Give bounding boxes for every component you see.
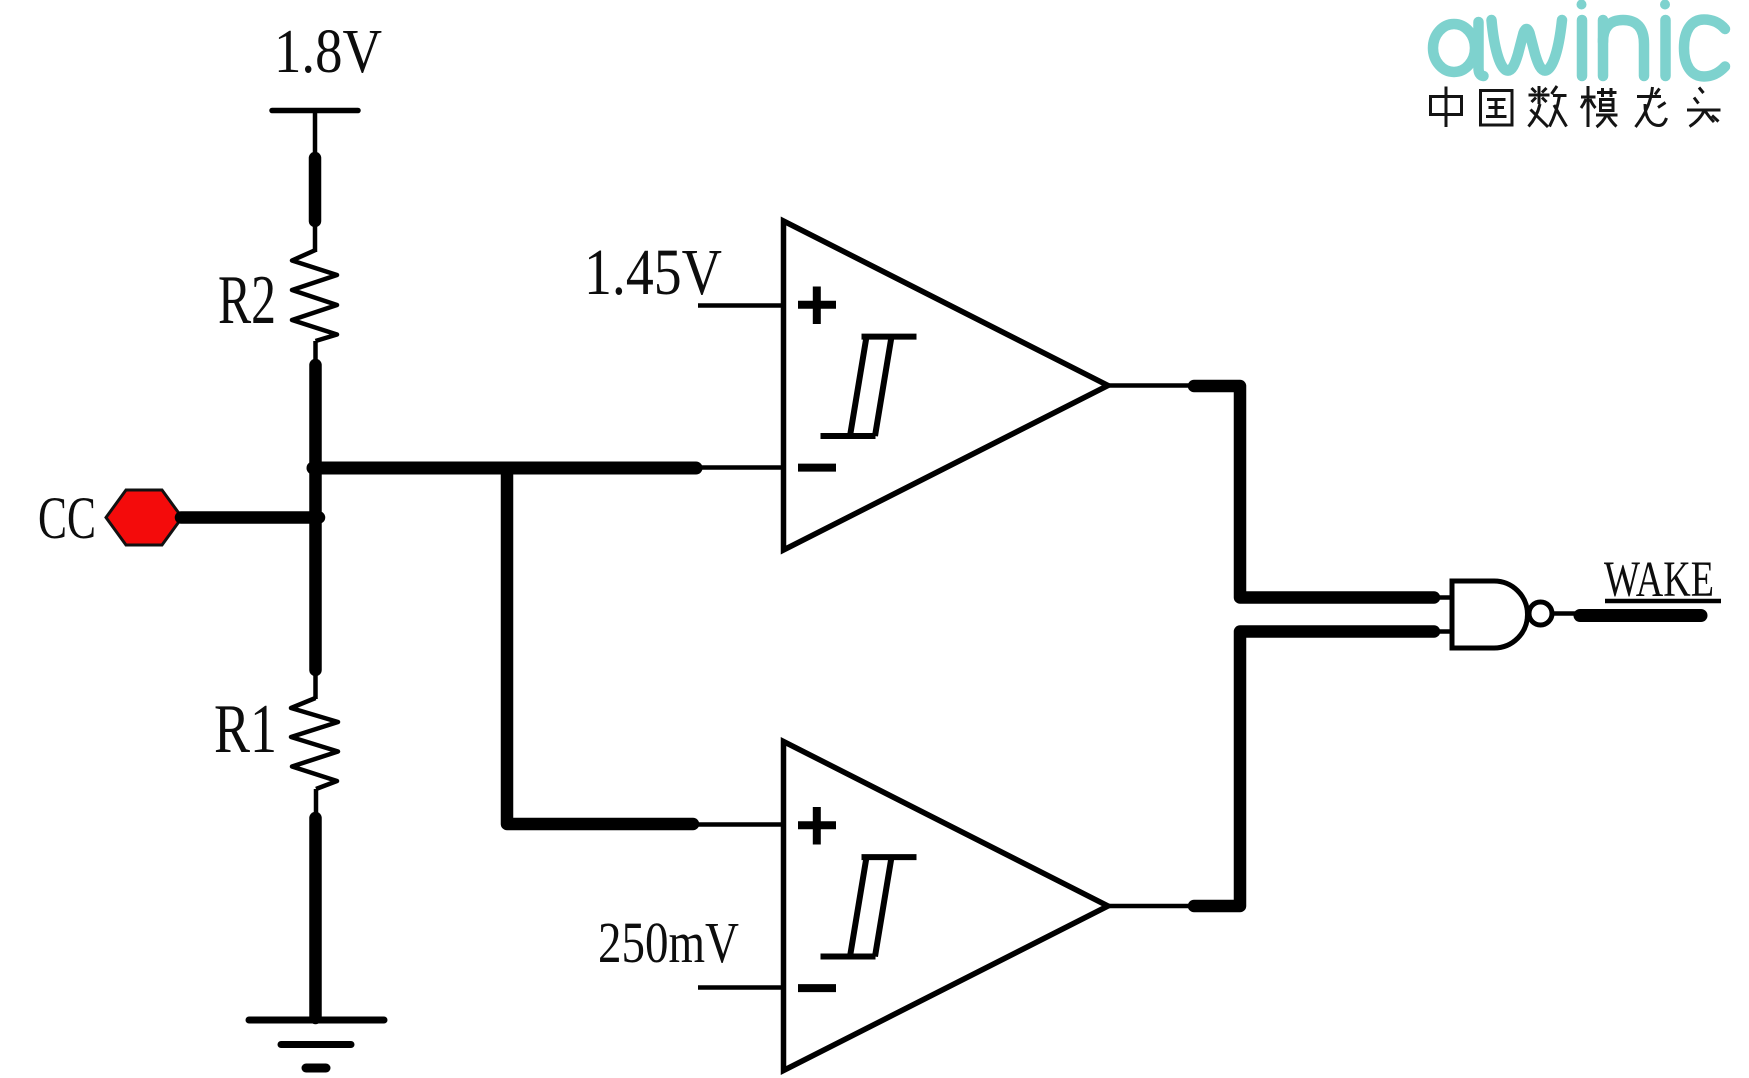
wire <box>1106 383 1198 388</box>
wire <box>1552 611 1582 616</box>
wire <box>313 462 696 475</box>
wire <box>1434 595 1454 600</box>
wire <box>309 818 322 1018</box>
comparator U2 <box>784 742 1109 1071</box>
svg-text:WAKE: WAKE <box>1604 552 1714 608</box>
wire <box>1194 632 1434 907</box>
wire <box>313 110 318 160</box>
wire <box>1106 904 1198 909</box>
port CC <box>106 490 182 545</box>
wire <box>698 985 782 990</box>
resistor R1 <box>291 698 338 789</box>
power rail 1.8V bar <box>272 108 358 114</box>
wire <box>1605 599 1721 604</box>
svg-text:R1: R1 <box>214 691 277 768</box>
ground <box>249 1020 384 1068</box>
svg-text:1.45V: 1.45V <box>584 236 722 309</box>
wire <box>309 158 322 221</box>
wire <box>698 303 782 308</box>
wire <box>313 219 318 252</box>
wire <box>1194 386 1434 598</box>
wire <box>507 468 693 824</box>
NAND gate U3 <box>1452 581 1552 648</box>
svg-text:1.8V: 1.8V <box>274 18 382 86</box>
wire <box>314 789 319 820</box>
wire <box>700 465 782 470</box>
svg-text:R2: R2 <box>218 262 276 339</box>
wire <box>1434 629 1454 634</box>
wire <box>313 668 318 699</box>
awinic logo <box>1433 0 1725 77</box>
wire <box>313 341 318 366</box>
svg-text:250mV: 250mV <box>598 910 739 975</box>
resistor R2 <box>292 250 337 341</box>
logo tagline 中国数模龙头 <box>1431 86 1721 127</box>
wire <box>309 365 322 670</box>
svg-text:CC: CC <box>38 485 96 551</box>
comparator U1 <box>784 221 1109 550</box>
wire <box>697 822 782 827</box>
wire <box>181 511 319 524</box>
wire <box>1580 609 1701 622</box>
